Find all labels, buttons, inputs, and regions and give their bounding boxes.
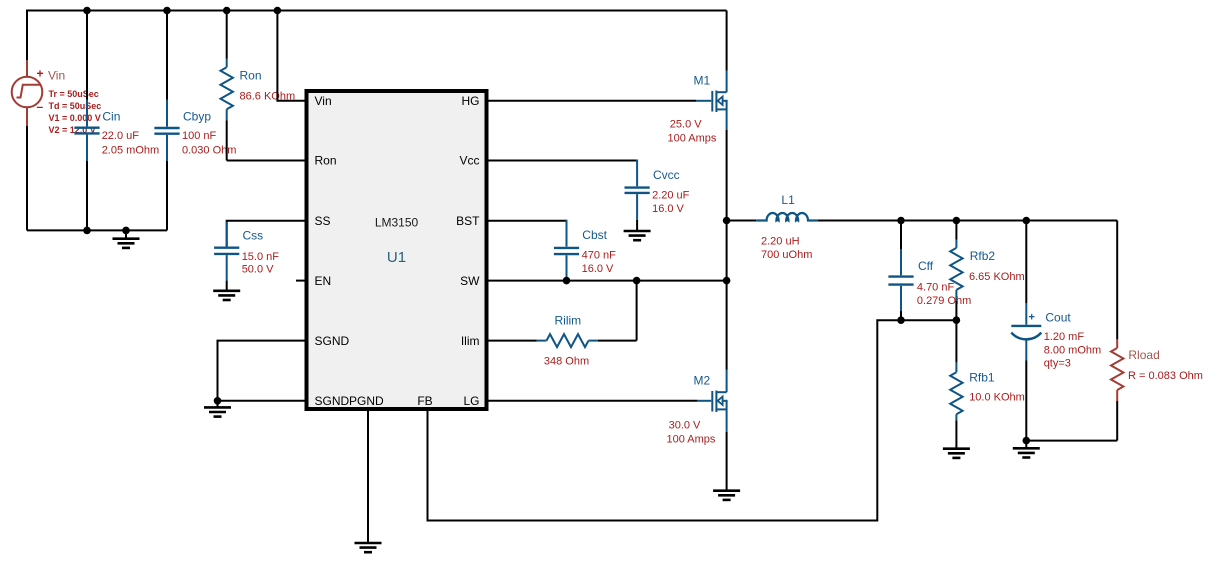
- ground PGND: [355, 543, 382, 552]
- svg-text:Cbst: Cbst: [582, 228, 607, 242]
- resistor Rfb1: [950, 320, 1025, 449]
- svg-text:16.0 V: 16.0 V: [652, 203, 684, 215]
- svg-text:50.0 V: 50.0 V: [242, 264, 274, 276]
- svg-text:6.65 KOhm: 6.65 KOhm: [969, 271, 1025, 283]
- EN pin stub: [296, 280, 307, 282]
- svg-text:16.0 V: 16.0 V: [582, 263, 614, 275]
- svg-text:L1: L1: [781, 193, 795, 207]
- wire Vin pin drop: [277, 11, 306, 101]
- svg-text:SGND: SGND: [315, 334, 350, 348]
- svg-text:Rilim: Rilim: [555, 314, 582, 328]
- svg-text:Rfb1: Rfb1: [969, 371, 995, 385]
- svg-text:M1: M1: [694, 73, 711, 87]
- ground Css: [213, 291, 240, 300]
- svg-text:0.030 Ohm: 0.030 Ohm: [182, 145, 236, 157]
- ground M2: [713, 491, 740, 500]
- svg-text:Cin: Cin: [102, 110, 120, 124]
- node SGND junction: [214, 397, 222, 405]
- svg-text:Cout: Cout: [1045, 311, 1071, 325]
- svg-text:Cff: Cff: [918, 259, 934, 273]
- svg-text:2.05 mOhm: 2.05 mOhm: [102, 145, 159, 157]
- svg-text:SGND: SGND: [315, 394, 350, 408]
- wire Cout to Rload bottom: [1026, 440, 1117, 442]
- wire Vcc: [487, 160, 638, 162]
- svg-text:M2: M2: [694, 373, 711, 387]
- svg-text:–: –: [37, 100, 44, 114]
- svg-text:8.00 mOhm: 8.00 mOhm: [1044, 345, 1101, 357]
- wire FB net: [428, 320, 902, 520]
- svg-text:Ron: Ron: [315, 154, 337, 168]
- svg-text:BST: BST: [456, 214, 480, 228]
- svg-text:100 Amps: 100 Amps: [668, 132, 717, 144]
- svg-text:Rfb2: Rfb2: [970, 249, 996, 263]
- wire SGND1: [218, 341, 307, 401]
- transistor M2: [667, 370, 728, 445]
- ground SGND: [204, 401, 231, 417]
- svg-text:R = 0.083 Ohm: R = 0.083 Ohm: [1128, 370, 1203, 382]
- svg-text:Vin: Vin: [315, 94, 332, 108]
- wire Ron to pin: [227, 160, 307, 162]
- wire FB row to Rfb junction: [901, 319, 956, 321]
- resistor Rload: [1111, 221, 1203, 441]
- ground Cvcc: [624, 231, 651, 240]
- op-amp U1 IC body LM3150: [307, 91, 487, 409]
- wire LG: [487, 400, 698, 402]
- svg-text:100 nF: 100 nF: [182, 130, 217, 142]
- svg-text:Cbyp: Cbyp: [183, 110, 211, 124]
- capacitor Cout: [1011, 221, 1101, 441]
- svg-text:Ron: Ron: [240, 69, 262, 83]
- wire M1 drain drop: [726, 11, 728, 71]
- capacitor Css: [214, 221, 306, 291]
- wire M2 source: [726, 432, 728, 491]
- svg-text:25.0 V: 25.0 V: [670, 118, 702, 130]
- svg-text:4.70 nF: 4.70 nF: [917, 281, 955, 293]
- svg-text:V1 = 0.000 V: V1 = 0.000 V: [49, 113, 101, 123]
- wire top rail Vin node: [27, 11, 727, 61]
- capacitor Cbyp: [154, 11, 236, 231]
- svg-text:Rload: Rload: [1128, 348, 1159, 362]
- capacitor Cbst: [554, 220, 616, 281]
- ground Cout: [1013, 441, 1040, 458]
- svg-text:15.0 nF: 15.0 nF: [242, 251, 280, 263]
- svg-text:700 uOhm: 700 uOhm: [761, 249, 812, 261]
- capacitor Cin: [74, 11, 159, 231]
- svg-text:Vcc: Vcc: [459, 154, 479, 168]
- wire BST: [487, 220, 567, 222]
- node dots: [83, 7, 1030, 445]
- svg-text:SS: SS: [315, 214, 331, 228]
- svg-text:470 nF: 470 nF: [582, 250, 617, 262]
- svg-text:FB: FB: [417, 394, 432, 408]
- svg-text:10.0 KOhm: 10.0 KOhm: [969, 391, 1025, 403]
- wire SGND2: [218, 400, 307, 402]
- svg-text:22.0 uF: 22.0 uF: [102, 130, 140, 142]
- svg-text:EN: EN: [315, 274, 332, 288]
- svg-text:Css: Css: [243, 229, 264, 243]
- svg-text:Tr = 50uSec: Tr = 50uSec: [49, 89, 99, 99]
- source Vin: [12, 60, 102, 135]
- svg-text:100 Amps: 100 Amps: [667, 433, 716, 445]
- svg-text:30.0 V: 30.0 V: [669, 419, 701, 431]
- svg-text:Vin: Vin: [48, 69, 65, 83]
- svg-text:+: +: [37, 67, 44, 81]
- ground Rfb1: [943, 449, 970, 458]
- resistor Rfb2: [950, 221, 1024, 321]
- svg-text:348 Ohm: 348 Ohm: [544, 356, 589, 368]
- svg-text:PGND: PGND: [349, 394, 384, 408]
- svg-text:2.20 uF: 2.20 uF: [652, 190, 690, 202]
- wire M1 source to M2 drain: [726, 130, 728, 370]
- inductor L1: [727, 193, 1118, 261]
- wire HG: [487, 100, 697, 102]
- svg-text:SW: SW: [460, 274, 480, 288]
- svg-text:2.20 uH: 2.20 uH: [761, 235, 800, 247]
- wire PGND drop: [367, 410, 369, 544]
- svg-text:Ilim: Ilim: [461, 334, 480, 348]
- svg-text:0.279 Ohm: 0.279 Ohm: [917, 295, 971, 307]
- svg-text:Td = 50uSec: Td = 50uSec: [49, 101, 102, 111]
- capacitor Cff: [888, 221, 971, 321]
- wire bottom input rail: [27, 229, 167, 231]
- ground input: [113, 230, 140, 248]
- resistor Ron: [221, 11, 296, 161]
- svg-text:HG: HG: [462, 94, 480, 108]
- svg-text:Cvcc: Cvcc: [653, 168, 680, 182]
- svg-text:LM3150: LM3150: [375, 216, 419, 230]
- svg-text:+: +: [1029, 312, 1035, 324]
- svg-text:U1: U1: [387, 249, 406, 266]
- svg-text:1.20 mF: 1.20 mF: [1044, 331, 1085, 343]
- transistor M1: [668, 71, 728, 145]
- capacitor Cvcc: [625, 160, 690, 232]
- resistor Rilim: [487, 281, 637, 368]
- wire Vin source bottom: [26, 126, 28, 231]
- svg-text:LG: LG: [463, 394, 479, 408]
- svg-text:qty=3: qty=3: [1044, 358, 1071, 370]
- wire SW: [487, 280, 727, 282]
